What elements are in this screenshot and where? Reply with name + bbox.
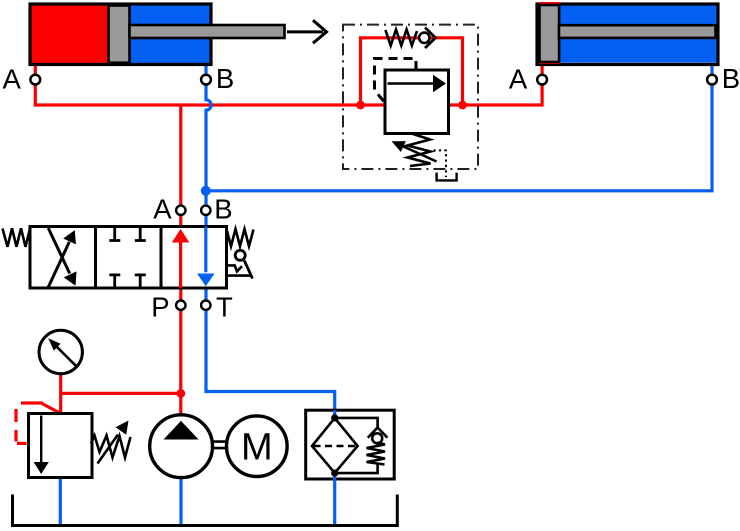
port DV1-T (201, 301, 210, 310)
wire blue: left cylinder B down through valve with hop over red (206, 64, 335, 420)
port CYL1-A (30, 75, 40, 85)
wire blue: right cylinder B branch (206, 64, 712, 191)
DV1 right spring (227, 229, 254, 246)
RV1 flow arrow (down) (40, 416, 42, 463)
tank T0 (reservoir) (13, 495, 398, 526)
cylinder CYL2 rod-end fluid (blue) (539, 6, 717, 63)
svg-text:M: M (241, 427, 273, 469)
F1 bypass check ball (372, 433, 382, 443)
PG1 needle (55, 345, 76, 366)
directional valve DV1 body (30, 227, 227, 289)
RV1 adjustable spring (91, 436, 131, 458)
F1 bypass spring (367, 443, 386, 465)
F1 element diamond (312, 418, 358, 473)
svg-text:T: T (216, 291, 233, 322)
svg-text:B: B (214, 194, 232, 225)
cylinder CYL2 cap-end fluid sliver (red) (539, 2, 560, 64)
flow control valve FC1 enclosure (dash-dot box) (343, 25, 478, 169)
filter F1 body (306, 410, 395, 479)
svg-text:B: B (722, 63, 740, 94)
junction node: FC1 outlet (red) (458, 101, 467, 110)
relief valve RV1 body (29, 414, 93, 478)
port DV1-A (176, 206, 185, 215)
svg-text:B: B (216, 63, 234, 94)
cylinder CYL2 barrel (537, 4, 718, 65)
drain tank symbol of U1 (437, 173, 457, 181)
relief valve RV1 pilot line (red dashed) (16, 403, 43, 443)
DV1 right position B-to-T flow arrow (blue) (204, 227, 207, 273)
junction node: B line (blue) (201, 186, 211, 196)
motor M1 (226, 416, 287, 477)
DV1 lever base line (227, 274, 251, 277)
spring (adjustable) of U1 (408, 134, 431, 166)
pressure gauge PG1 (39, 330, 82, 373)
svg-text:A: A (3, 64, 22, 95)
cylinder CYL1 barrel (30, 4, 211, 65)
check valve CV1 spring (385, 30, 417, 46)
cylinder CYL1 piston (109, 6, 130, 63)
DV1 center position blocked ports (109, 227, 146, 289)
RV1 adjust arrow (98, 435, 119, 464)
junction node inside F1 (bottom) (331, 470, 338, 477)
port CYL1-B (201, 75, 211, 85)
DV1 right position P-to-A flow arrow (red) (179, 241, 182, 289)
wire red: bypass loop of flow control valve (361, 38, 463, 105)
wire red: cylinder A lines and main pressure header (35, 64, 542, 105)
DV1 left position crossed arrow 2 (48, 228, 69, 273)
DV1 left spring (3, 228, 31, 247)
pressure compensator U1 body (385, 70, 449, 134)
pump P1 (150, 415, 213, 478)
port DV1-P (176, 301, 185, 310)
DV1 left position crossed arrow 1 (48, 242, 69, 287)
wire blue: relief valve drain to tank (59, 477, 62, 524)
arrow: extension direction (287, 20, 327, 43)
cylinder CYL1 rod-end fluid (blue) (110, 6, 210, 64)
DV1 roller detent notch (227, 265, 242, 271)
pressure compensator U1 flow arrow (388, 82, 434, 85)
port CYL2-A (537, 75, 547, 85)
wire blue: through filter (333, 410, 336, 419)
F1 element dashed line (314, 445, 357, 448)
junction node: FC1 inlet (red) (356, 101, 365, 110)
DV1 position dividers (96, 227, 162, 289)
port CYL2-B (707, 75, 717, 85)
svg-text:A: A (153, 194, 172, 225)
P1 flow triangle (164, 421, 199, 440)
wire red: gauge stem and relief branch (61, 373, 181, 414)
check valve CV1 seat (425, 28, 436, 49)
pilot line (dashed) of U1 (375, 59, 417, 104)
cylinder CYL2 piston (540, 5, 560, 62)
cylinder CYL1 cap-end fluid (red) (32, 6, 111, 64)
cylinder CYL2 rod (559, 25, 716, 38)
svg-text:A: A (509, 63, 528, 94)
cylinder CYL1 rod (130, 25, 285, 38)
F1 bypass check seat (368, 428, 388, 438)
wire red: pressure line P to pump (179, 105, 182, 420)
DV1 roller actuator circle (235, 250, 245, 260)
adjust arrow of U1 spring (399, 145, 437, 162)
check valve CV1 ball (419, 33, 429, 43)
junction node: pump outlet (red) (176, 389, 185, 398)
drain line (dotted) of U1 (434, 150, 447, 177)
F1 bypass lines (335, 418, 378, 473)
junction node inside F1 (top) (331, 414, 338, 421)
svg-text:P: P (151, 291, 169, 322)
wire blue: pump suction (179, 477, 182, 524)
port DV1-B (201, 206, 210, 215)
shaft P1-M1 (213, 442, 227, 449)
DV1 roller lever (244, 261, 252, 279)
